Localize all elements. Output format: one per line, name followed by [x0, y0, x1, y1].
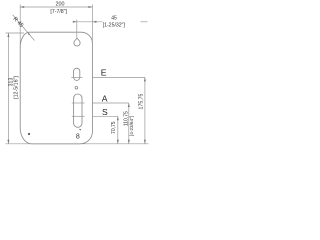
svg-text:[1-25/32"]: [1-25/32"]: [103, 23, 126, 29]
svg-text:[4-23/64"]: [4-23/64"]: [129, 116, 134, 136]
svg-text:E: E: [101, 68, 107, 78]
svg-text:[7-7/8"]: [7-7/8"]: [50, 9, 67, 15]
svg-text:S: S: [102, 107, 108, 117]
svg-text:175,75: 175,75: [138, 93, 144, 109]
svg-text:70,75: 70,75: [111, 121, 117, 134]
svg-text:45: 45: [111, 16, 117, 22]
svg-text:[12-5/16"]: [12-5/16"]: [13, 76, 19, 99]
svg-text:200: 200: [56, 2, 65, 8]
svg-text:8: 8: [76, 133, 80, 140]
svg-text:A: A: [102, 93, 108, 103]
